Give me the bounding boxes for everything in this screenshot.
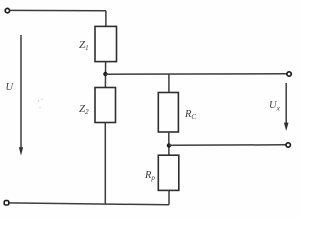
resistor Rc box: [158, 93, 178, 133]
voltage arrow U: [20, 35, 22, 149]
resistor Rp box: [158, 155, 179, 190]
wire Rc bottom through node B to Rp: [168, 132, 170, 155]
terminal output top-right: [287, 72, 291, 76]
wire node B to bottom-right terminal: [169, 144, 286, 147]
wire Z1 bottom to node A: [104, 62, 106, 88]
wire bottom rail: [9, 203, 169, 205]
node B junction dot: [167, 143, 171, 147]
wire top horizontal: [10, 9, 106, 11]
scan speckles: [38, 100, 39, 101]
terminal bottom-left: [4, 201, 9, 205]
wire top down to Z1: [105, 11, 107, 27]
terminal output bottom-right: [286, 143, 290, 147]
node A junction dot: [103, 72, 107, 76]
impedance Z1 box: [95, 26, 117, 61]
terminal input top-left: [5, 8, 9, 12]
wire top rail down to Rc: [168, 74, 170, 93]
wire Rp bottom to bottom rail: [168, 190, 170, 204]
wire Z2 bottom to bottom rail: [104, 123, 106, 204]
wire node A to top-right terminal: [105, 73, 286, 75]
voltage arrow Ux: [285, 83, 287, 124]
impedance Z2 box: [95, 88, 116, 123]
